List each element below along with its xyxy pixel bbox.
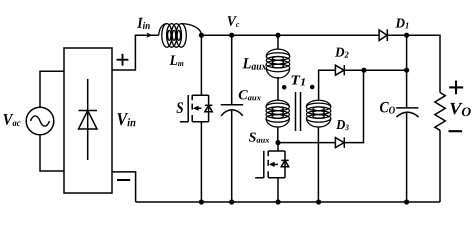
arrow Iin <box>147 33 153 38</box>
wire top rail Vc to Laux <box>232 34 278 36</box>
wire secondary bottom to rail <box>317 127 319 202</box>
wire D2 to node <box>344 69 364 71</box>
wire bottom rail <box>136 201 440 203</box>
label Vin <box>117 113 135 126</box>
wire top rail Lm to Vc <box>201 34 231 36</box>
label Co <box>380 102 395 114</box>
diode inside bridge <box>79 79 98 160</box>
wire bridge plus up to top rail <box>112 35 159 70</box>
label D2 <box>335 48 349 58</box>
label D1 <box>396 18 409 28</box>
label Vac <box>3 114 20 126</box>
wire Vac top to bridge <box>40 71 64 107</box>
node S source on rail <box>199 199 204 204</box>
label Saux <box>249 132 269 142</box>
node Laux top <box>275 33 280 38</box>
polarity dot secondary <box>310 85 315 90</box>
label D3 <box>336 120 349 130</box>
diode D1 <box>379 29 387 41</box>
wire node to D3 <box>278 142 335 144</box>
inductor Laux <box>266 35 289 100</box>
node Vc <box>229 33 234 38</box>
wire primary bottom to node <box>277 127 279 143</box>
bridge rectifier box <box>64 48 112 193</box>
label plus (Vin) <box>117 54 129 66</box>
node secondary bottom on rail <box>316 199 321 204</box>
inductor Lm <box>159 24 202 48</box>
wire resistor bottom to rail <box>439 130 441 202</box>
wire D1 to output node <box>387 34 406 36</box>
resistor load Vo <box>435 93 445 131</box>
transformer T1 secondary winding <box>306 100 330 127</box>
mosfet S <box>180 35 213 202</box>
label plus (Vo) <box>449 81 463 95</box>
label Iin <box>137 18 150 29</box>
label S <box>177 102 184 113</box>
polarity dot primary <box>282 85 287 90</box>
wire secondary top to D2 <box>319 70 336 100</box>
label Caux <box>239 90 261 100</box>
transformer T1 core <box>296 92 301 131</box>
wire bridge minus to bottom rail <box>112 172 136 202</box>
diode D3 <box>335 137 344 147</box>
node Co top <box>404 68 409 73</box>
wire D3 up to D2 node <box>344 70 363 142</box>
ac source Vac <box>26 107 54 135</box>
label minus (Vin) <box>117 179 130 181</box>
wire D1 node down to Co node <box>406 35 408 70</box>
label Vc <box>228 16 240 27</box>
node D1 cathode <box>404 33 409 38</box>
wire top rail to load corner <box>407 35 440 92</box>
node Saux source on rail <box>275 199 280 204</box>
node at Lm output <box>199 33 204 38</box>
label T1 <box>292 75 305 85</box>
capacitor Co <box>396 70 418 202</box>
capacitor Caux <box>221 35 243 202</box>
label Vo <box>450 103 471 116</box>
diode D2 <box>335 65 344 75</box>
wire node to Co/D1 node <box>364 69 407 71</box>
label Lm <box>170 55 184 66</box>
node primary bottom / Saux drain / D3 anode <box>275 140 280 145</box>
node Co bottom on rail <box>404 199 409 204</box>
node D2 D3 junction <box>361 68 366 73</box>
mosfet Saux <box>255 143 289 202</box>
label Laux <box>243 58 267 70</box>
node Caux bottom on rail <box>229 199 234 204</box>
label minus (Vo) <box>449 130 463 132</box>
wire Vac bottom to bridge <box>40 135 64 171</box>
transformer T1 primary winding <box>266 100 289 127</box>
wire top rail Laux to D1 <box>278 34 379 36</box>
